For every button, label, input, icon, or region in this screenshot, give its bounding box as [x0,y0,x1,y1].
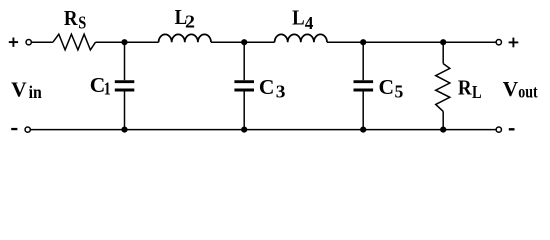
svg-text:V: V [11,77,27,101]
label L2 [175,5,195,32]
inductor L4 [275,34,327,42]
capacitor C5 lead top [362,42,364,80]
node B (junction C3 top) [241,39,247,45]
terminal input bottom [25,127,30,132]
wire top rail L2 to L4 [211,41,275,43]
node G (junction C5 bottom) [360,127,366,133]
minus sign (output -) [509,128,515,130]
node D (junction RL top) [440,39,446,45]
svg-text:2: 2 [185,12,195,32]
label C1 [90,73,111,98]
svg-text:4: 4 [305,13,314,33]
label L4 [292,6,314,34]
node F (junction C3 bottom) [241,127,247,133]
svg-text:R: R [458,76,472,100]
resistor R1 (RS zigzag) [53,34,96,50]
node E (junction C1 bottom) [121,127,127,133]
label C3 [259,75,286,102]
capacitor C1 lead bottom [124,92,126,130]
svg-text:C: C [259,75,275,99]
svg-text:in: in [29,82,42,102]
svg-text:L: L [472,82,482,102]
svg-text:3: 3 [276,82,286,102]
svg-text:S: S [78,12,86,32]
label Vin [11,77,42,101]
capacitor C5 plates [354,82,374,90]
resistor R2 (RL zigzag) [436,64,450,112]
wire top rail L4 to output [327,41,496,43]
label RS [64,6,86,33]
label C5 [379,75,404,102]
node C (junction C5 top) [360,39,366,45]
resistor R2 (RL) lead top [442,42,444,63]
svg-text:R: R [64,6,78,30]
svg-text:L: L [292,6,305,30]
capacitor C5 lead bottom [362,92,364,130]
plus sign (input +) [9,38,18,47]
svg-text:1: 1 [104,78,111,98]
minus sign (input -) [11,128,17,130]
terminal output top [496,40,501,45]
svg-text:5: 5 [395,82,404,102]
terminal input top [26,40,31,45]
capacitor C3 lead bottom [243,92,245,130]
wire top rail left segment [32,41,53,43]
label RL [458,76,482,102]
capacitor C3 lead top [243,42,245,80]
svg-text:out: out [518,82,538,102]
svg-text:C: C [379,75,395,99]
svg-text:V: V [503,77,519,101]
node H (junction RL bottom) [440,127,446,133]
node A (junction C1 top) [121,39,127,45]
wire bottom rail [31,129,496,131]
terminal output bottom [496,127,501,132]
resistor R2 (RL) lead bottom [442,111,444,129]
plus sign (output +) [509,38,519,48]
wire top rail RS to L2 [96,41,159,43]
label Vout [503,77,538,102]
capacitor C1 lead top [124,42,126,80]
capacitor C3 plates [234,82,254,90]
inductor L2 [159,34,211,42]
capacitor C1 plates [115,82,135,90]
